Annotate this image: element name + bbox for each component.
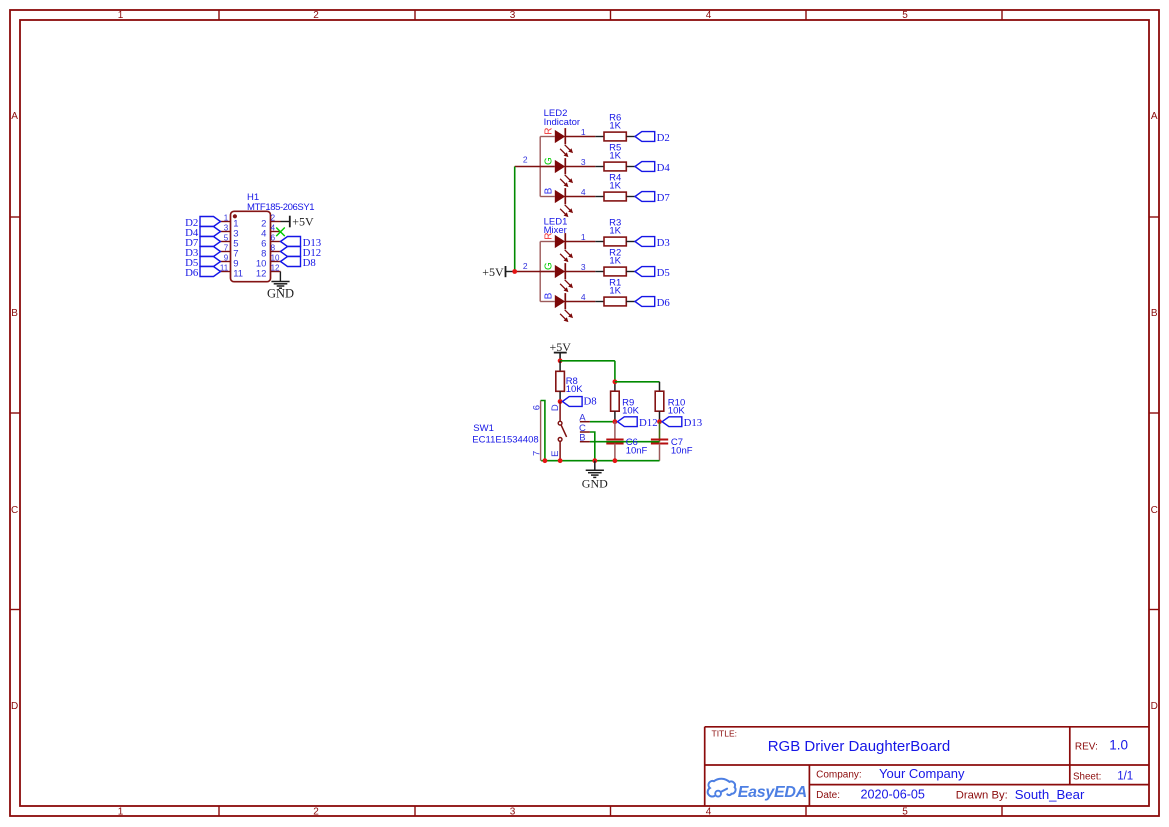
H1 pin 4 <box>261 224 280 240</box>
SW1 reference label <box>473 423 494 434</box>
svg-text:D8: D8 <box>584 396 597 408</box>
connector H1 MTF185-206SY1 body <box>231 211 271 281</box>
svg-text:D6: D6 <box>657 297 671 309</box>
resistor R4 1K <box>604 172 626 201</box>
svg-text:D5: D5 <box>657 267 670 279</box>
svg-text:D13: D13 <box>684 417 703 429</box>
svg-text:3: 3 <box>581 262 586 272</box>
svg-text:3: 3 <box>224 224 229 233</box>
title block <box>705 727 1149 806</box>
svg-text:Drawn By:: Drawn By: <box>956 790 1008 802</box>
svg-text:Company:: Company: <box>816 770 862 781</box>
svg-text:10nF: 10nF <box>626 445 648 456</box>
LED LED1 reference label <box>544 216 568 227</box>
junction at D12 node <box>613 419 618 424</box>
REV field <box>1075 738 1128 753</box>
svg-text:D12: D12 <box>639 417 658 429</box>
svg-text:South_Bear: South_Bear <box>1015 787 1085 802</box>
svg-text:4: 4 <box>706 807 712 818</box>
LED1 R LED element <box>544 232 573 262</box>
svg-text:3: 3 <box>510 10 516 21</box>
svg-text:10K: 10K <box>668 406 686 417</box>
LED2 B LED element <box>544 187 573 217</box>
svg-text:1: 1 <box>118 10 124 21</box>
H1 pin 11 <box>220 264 243 280</box>
LED2 value label Indicator <box>544 117 580 128</box>
H1 value label MTF185-206SY1 <box>247 202 314 213</box>
H1 pin 12 <box>256 264 281 280</box>
svg-text:EC11E1534408: EC11E1534408 <box>472 434 538 445</box>
junction at D13 node <box>657 419 662 424</box>
net port flag D7 on H1 pin 5 <box>185 237 220 249</box>
svg-text:REV:: REV: <box>1075 741 1098 752</box>
svg-text:D: D <box>550 404 561 411</box>
svg-text:1K: 1K <box>609 225 621 236</box>
net port flag D6 on H1 pin 11 <box>185 267 220 279</box>
junction rail at C6 <box>613 458 618 463</box>
SW1 pin C <box>579 423 590 434</box>
svg-text:10: 10 <box>271 254 280 263</box>
power flag +5V at LED1 <box>482 265 514 279</box>
svg-text:4: 4 <box>581 292 586 302</box>
net port flag D13 on H1 <box>281 237 322 249</box>
svg-text:B: B <box>1151 308 1158 319</box>
resistor R9 10K <box>611 382 640 422</box>
wire R2 to flag D5 <box>626 271 635 273</box>
LED2 pin 3 wire to resistor <box>565 157 604 167</box>
svg-text:6: 6 <box>271 234 276 243</box>
wire H1 pin12 to ground <box>279 272 281 282</box>
wire +5V to R9 R10 branch <box>560 361 615 382</box>
LED1 pin 1 wire to resistor <box>565 232 604 242</box>
EasyEDA logo <box>708 779 807 801</box>
svg-text:7: 7 <box>531 451 542 456</box>
svg-text:1K: 1K <box>609 285 621 296</box>
SW1 frame pins 6 and 7 <box>531 401 542 461</box>
H1 pin 10 <box>256 254 281 270</box>
ground GND symbol lower <box>582 461 608 491</box>
svg-text:GND: GND <box>582 477 608 491</box>
resistor R6 1K <box>604 112 626 141</box>
wire R1 to flag D6 <box>626 301 635 303</box>
LED2 R LED element <box>544 127 573 157</box>
svg-text:Your Company: Your Company <box>879 766 965 781</box>
wire A to D12 node <box>590 421 615 423</box>
svg-text:10K: 10K <box>622 406 640 417</box>
junction at R9 top <box>613 379 618 384</box>
LED1 pin 2 label and wire <box>515 261 541 272</box>
svg-text:B: B <box>11 308 18 319</box>
wire H1 pin2 to +5V <box>281 221 290 223</box>
svg-text:EasyEDA: EasyEDA <box>738 784 807 801</box>
svg-text:Sheet:: Sheet: <box>1073 772 1101 783</box>
svg-text:SW1: SW1 <box>473 423 494 434</box>
LED2 pin 4 wire to resistor <box>565 187 604 197</box>
SW1 value label EC11E1534408 <box>472 434 538 445</box>
svg-text:E: E <box>550 451 561 457</box>
H1 pin 9 <box>221 254 239 270</box>
wire R5 to flag D4 <box>626 166 635 168</box>
LED2 pin 1 wire to resistor <box>565 127 604 137</box>
svg-text:1K: 1K <box>609 150 621 161</box>
H1 pin 7 <box>221 244 239 260</box>
svg-text:D6: D6 <box>185 267 199 279</box>
svg-text:2: 2 <box>271 214 276 223</box>
Company field <box>816 766 965 781</box>
svg-text:2: 2 <box>313 10 319 21</box>
Drawn By field <box>956 787 1085 802</box>
svg-text:5: 5 <box>224 234 229 243</box>
svg-text:+5V: +5V <box>482 265 504 279</box>
svg-text:9: 9 <box>224 254 229 263</box>
H1 pin 2 <box>261 214 280 230</box>
junction rail at SW1 pins <box>543 458 548 463</box>
svg-text:11: 11 <box>233 268 243 279</box>
H1 pin 5 <box>221 234 239 250</box>
svg-text:D: D <box>11 701 18 712</box>
H1 pin 6 <box>261 234 280 250</box>
wire B to D13 node <box>590 422 660 442</box>
svg-text:2020-06-05: 2020-06-05 <box>861 787 925 801</box>
net port flag D2 on H1 pin 1 <box>185 217 220 229</box>
svg-text:5: 5 <box>902 807 908 818</box>
capacitor C6 10nF <box>606 422 647 461</box>
wire R4 to flag D7 <box>626 196 635 198</box>
svg-text:A: A <box>1151 111 1158 122</box>
svg-text:D4: D4 <box>657 162 671 174</box>
SW1 pin A <box>579 412 590 423</box>
net port flag D2 <box>635 132 670 144</box>
svg-text:2: 2 <box>523 155 528 165</box>
svg-text:4: 4 <box>706 10 712 21</box>
resistor R2 1K <box>604 247 626 276</box>
svg-text:C: C <box>11 505 18 516</box>
junction below +5V <box>558 358 563 363</box>
LED1 pin 3 wire to resistor <box>565 262 604 272</box>
title value RGB Driver DaughterBoard <box>768 738 951 755</box>
svg-text:GND: GND <box>267 287 294 301</box>
net port flag D6 <box>635 297 670 309</box>
wire R3 to flag D3 <box>626 241 635 243</box>
svg-text:RGB Driver DaughterBoard: RGB Driver DaughterBoard <box>768 738 951 755</box>
LED2 G LED element <box>544 157 573 187</box>
net port flag D3 on H1 pin 7 <box>185 247 220 259</box>
H1 pin 1 <box>221 214 239 230</box>
net port flag D4 on H1 pin 3 <box>185 227 220 239</box>
junction at D8 node <box>558 399 563 404</box>
svg-text:7: 7 <box>224 244 229 253</box>
svg-text:D8: D8 <box>303 257 316 269</box>
svg-text:Indicator: Indicator <box>544 117 580 128</box>
svg-text:10K: 10K <box>566 384 584 395</box>
svg-text:1K: 1K <box>609 255 621 266</box>
svg-text:1/1: 1/1 <box>1117 770 1133 782</box>
H1 pin 8 <box>261 244 280 260</box>
svg-text:1K: 1K <box>609 180 621 191</box>
wire C to ground rail <box>590 432 595 461</box>
net port flag D12 on H1 <box>281 247 322 259</box>
net port flag D8 <box>562 396 596 408</box>
svg-text:6: 6 <box>531 405 542 410</box>
svg-text:1: 1 <box>581 232 586 242</box>
svg-text:G: G <box>544 262 555 270</box>
net port flag D7 <box>635 192 670 204</box>
wire R6 to flag D2 <box>626 136 635 138</box>
svg-text:D7: D7 <box>657 192 671 204</box>
LED1 anode bus <box>540 242 555 302</box>
svg-text:4: 4 <box>271 224 276 233</box>
svg-text:1: 1 <box>118 807 124 818</box>
H1 reference designator label <box>247 192 259 203</box>
SW1 push switch contacts D E <box>550 402 567 461</box>
net port flag D4 <box>635 162 670 174</box>
junction rail at switch E <box>558 458 563 463</box>
capacitor C7 10nF <box>651 437 693 461</box>
resistor R5 1K <box>604 142 626 171</box>
resistor R3 1K <box>604 217 626 246</box>
Sheet field <box>1073 770 1133 782</box>
svg-text:1K: 1K <box>609 120 621 131</box>
net port flag D12 <box>618 417 658 429</box>
net port flag D5 <box>635 267 670 279</box>
wire grounding SW1 pins 6 7 <box>541 401 545 461</box>
svg-text:R: R <box>544 127 555 134</box>
power flag +5V at H1 pin2 <box>290 215 314 229</box>
net port flag D5 on H1 pin 9 <box>185 257 220 269</box>
svg-text:MTF185-206SY1: MTF185-206SY1 <box>247 202 314 213</box>
SW1 pin B <box>579 432 590 443</box>
svg-text:3: 3 <box>581 157 586 167</box>
svg-text:R: R <box>544 232 555 239</box>
LED1 B LED element <box>544 292 573 322</box>
LED1 G LED element <box>544 262 573 292</box>
svg-text:+5V: +5V <box>549 340 571 354</box>
junction rail at GND stem <box>592 458 597 463</box>
svg-text:D3: D3 <box>657 237 670 249</box>
svg-text:8: 8 <box>271 244 276 253</box>
svg-text:2: 2 <box>313 807 319 818</box>
net port flag D13 <box>662 417 702 429</box>
ground rail wire <box>541 460 659 462</box>
H1 pin 3 <box>221 224 239 240</box>
svg-text:B: B <box>544 187 555 194</box>
svg-text:A: A <box>11 111 18 122</box>
net port flag D3 <box>635 237 670 249</box>
ground GND at H1 pin12 <box>267 282 294 301</box>
svg-text:1: 1 <box>581 127 586 137</box>
no-connect X at H1 pin4 <box>276 228 285 237</box>
power flag +5V above R8 <box>549 340 571 361</box>
net port flag D8 on H1 <box>281 257 316 269</box>
resistor R8 10K <box>556 361 583 402</box>
svg-text:1: 1 <box>224 214 229 223</box>
svg-text:12: 12 <box>271 264 280 273</box>
LED2 pin 2 label and wire <box>515 155 541 167</box>
wire +5V vertical between LED groups <box>514 167 516 272</box>
resistor R10 10K <box>655 382 685 422</box>
svg-text:10nF: 10nF <box>671 446 693 457</box>
svg-text:D: D <box>1151 701 1158 712</box>
svg-text:B: B <box>544 292 555 299</box>
svg-text:2: 2 <box>523 261 528 271</box>
Date field <box>816 787 925 801</box>
wire branch to R10 <box>615 381 660 383</box>
LED LED2 reference label <box>544 108 568 119</box>
junction at +5V LED feed <box>512 269 517 274</box>
resistor R1 1K <box>604 277 626 306</box>
LED2 anode bus <box>540 137 555 197</box>
svg-text:+5V: +5V <box>292 215 314 229</box>
svg-text:D2: D2 <box>657 132 670 144</box>
svg-text:TITLE:: TITLE: <box>712 728 738 738</box>
LED1 value label Mixer <box>544 225 567 236</box>
svg-text:3: 3 <box>510 807 516 818</box>
svg-text:5: 5 <box>902 10 908 21</box>
LED1 pin 4 wire to resistor <box>565 292 604 302</box>
svg-text:4: 4 <box>581 187 586 197</box>
svg-text:C: C <box>1151 505 1158 516</box>
TITLE field <box>712 728 738 738</box>
svg-text:G: G <box>544 157 555 165</box>
svg-text:1.0: 1.0 <box>1109 738 1128 753</box>
svg-text:12: 12 <box>256 268 267 279</box>
svg-text:Date:: Date: <box>816 790 840 801</box>
